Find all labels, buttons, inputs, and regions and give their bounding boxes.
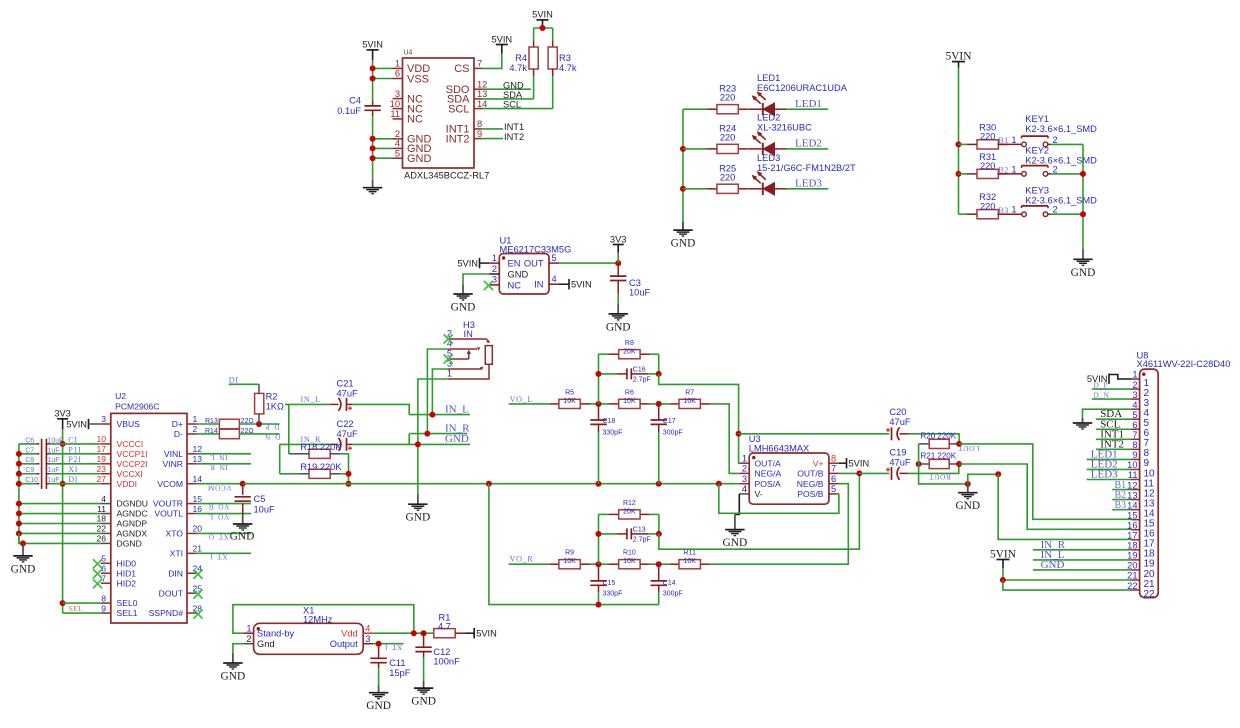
svg-text:GND: GND bbox=[366, 700, 391, 712]
junction dot node1 bbox=[596, 401, 602, 407]
svg-text:2: 2 bbox=[1053, 135, 1058, 145]
svg-text:10K: 10K bbox=[563, 398, 576, 405]
capacitor C12 100nF bbox=[415, 633, 460, 666]
svg-text:2.7pF: 2.7pF bbox=[633, 537, 651, 544]
wire to R30 bbox=[959, 143, 968, 145]
svg-text:22Ω: 22Ω bbox=[241, 428, 254, 435]
wire GND pin4 bbox=[373, 147, 393, 149]
junction dot LED row2 bbox=[680, 146, 686, 152]
wire KEY3 to ground rail bbox=[1051, 213, 1084, 215]
svg-text:27: 27 bbox=[96, 474, 106, 484]
wire VO_L row bbox=[509, 403, 549, 405]
ground symbol C12 bbox=[411, 681, 436, 708]
svg-text:23: 23 bbox=[96, 464, 106, 474]
svg-text:22: 22 bbox=[1144, 589, 1156, 600]
svg-text:9: 9 bbox=[1132, 450, 1137, 460]
wire C20 to R20 bbox=[909, 434, 960, 444]
svg-text:GND: GND bbox=[508, 269, 529, 279]
svg-text:10uF: 10uF bbox=[629, 288, 651, 298]
svg-text:19: 19 bbox=[96, 454, 106, 464]
wire XTO stub bbox=[197, 532, 251, 534]
svg-text:B1: B1 bbox=[998, 136, 1009, 145]
svg-text:POS/A: POS/A bbox=[755, 479, 782, 489]
net stub IN_R at H3 bbox=[409, 433, 467, 435]
svg-text:U2: U2 bbox=[115, 391, 126, 401]
svg-text:R6: R6 bbox=[625, 389, 634, 396]
svg-text:10K: 10K bbox=[563, 558, 576, 565]
wire U3 V- to ground bbox=[735, 494, 739, 515]
wire INT1 to pin7 bbox=[1096, 438, 1132, 440]
capacitor C15 330pF bbox=[590, 564, 622, 597]
wire R11 to U3 NEG/B bbox=[710, 484, 849, 565]
svg-text:R3: R3 bbox=[559, 53, 571, 63]
svg-text:2: 2 bbox=[1132, 380, 1137, 390]
svg-text:R5: R5 bbox=[565, 389, 574, 396]
wire VINL stub bbox=[197, 453, 251, 455]
wire key ground vertical bbox=[1082, 144, 1084, 249]
svg-text:GND: GND bbox=[503, 80, 524, 90]
switch KEY3 K2-3.6x6.1_SMD bbox=[997, 205, 1057, 217]
svg-text:D_N: D_N bbox=[264, 433, 280, 442]
resistor R32 220 bbox=[967, 192, 1008, 219]
capacitor C14 300pF bbox=[651, 564, 683, 597]
wire C18 to rail bbox=[598, 432, 600, 484]
junction dot LED row3 bbox=[680, 186, 686, 192]
ground symbol U8 pin4 bbox=[1073, 418, 1092, 429]
svg-text:SEL1: SEL1 bbox=[117, 608, 138, 618]
svg-text:D+: D+ bbox=[172, 419, 183, 429]
svg-text:SCL: SCL bbox=[503, 100, 521, 110]
wire D+ row bbox=[197, 423, 220, 425]
svg-text:0.1uF: 0.1uF bbox=[337, 106, 361, 116]
svg-text:INT2: INT2 bbox=[446, 133, 470, 145]
svg-text:C22: C22 bbox=[337, 419, 354, 429]
junction dot key gnd row3 bbox=[1080, 211, 1086, 217]
svg-text:5: 5 bbox=[552, 253, 557, 263]
wire 5VIN to pin21 bbox=[1003, 579, 1132, 581]
junction dot R2 D+ bbox=[256, 421, 262, 427]
wire pin4 to gnd bbox=[1083, 409, 1132, 421]
svg-text:1uF: 1uF bbox=[48, 477, 60, 484]
svg-text:XI: XI bbox=[68, 465, 78, 474]
ground symbol U1 bbox=[451, 284, 476, 313]
svg-text:2: 2 bbox=[742, 464, 747, 474]
svg-text:300pF: 300pF bbox=[663, 591, 683, 598]
wire to R23 bbox=[683, 108, 708, 110]
svg-text:GND: GND bbox=[411, 696, 436, 708]
svg-text:KEY2: KEY2 bbox=[1025, 146, 1049, 156]
svg-text:KEY1: KEY1 bbox=[1025, 114, 1049, 124]
wire VINR stub bbox=[197, 463, 251, 465]
svg-text:5VIN: 5VIN bbox=[532, 10, 553, 20]
svg-text:4: 4 bbox=[552, 274, 557, 284]
wire IN_R row bbox=[280, 443, 331, 445]
ground symbol R20R21 bbox=[955, 484, 980, 512]
wire U1 GND pin2 bbox=[463, 274, 489, 284]
wire INT2 to pin8 bbox=[1096, 448, 1132, 450]
wire to R32 bbox=[959, 213, 968, 215]
svg-text:R13: R13 bbox=[205, 418, 218, 425]
ground symbol C5 bbox=[230, 514, 255, 543]
wire KEY2 to ground rail bbox=[1051, 173, 1084, 175]
svg-text:INT2: INT2 bbox=[504, 132, 524, 142]
svg-text:8: 8 bbox=[831, 453, 836, 463]
wire DGND row bbox=[19, 533, 101, 543]
wire X1 top loop bbox=[233, 605, 414, 634]
junction dot pin17 net bbox=[995, 471, 1001, 477]
wire LED3 net bbox=[786, 188, 828, 190]
svg-text:22: 22 bbox=[96, 524, 106, 534]
wire R7 to U3 NEG/A bbox=[710, 404, 740, 474]
capacitor C8 1uF bbox=[19, 457, 101, 469]
svg-text:LED3: LED3 bbox=[795, 178, 822, 190]
svg-text:C16: C16 bbox=[633, 366, 646, 373]
ground symbol U2 left bbox=[11, 543, 36, 575]
svg-text:LMH6643MAX: LMH6643MAX bbox=[749, 443, 809, 453]
wire to R25 bbox=[683, 188, 708, 190]
svg-text:4: 4 bbox=[1132, 400, 1137, 410]
junction dot gnd row bbox=[16, 511, 22, 517]
junction dot key gnd row2 bbox=[1080, 171, 1086, 177]
svg-text:DI: DI bbox=[229, 375, 239, 384]
capacitor C3 10uF bbox=[610, 263, 651, 297]
junction dot C7 bbox=[16, 451, 22, 457]
IC U4 ADXL345BCCZ-RL7 accelerometer bbox=[390, 50, 490, 181]
junction dot node4 bbox=[656, 561, 662, 567]
net stub IN_L at H3 bbox=[409, 414, 470, 416]
svg-text:1: 1 bbox=[1011, 164, 1016, 174]
wire 5VIN to pin22 bbox=[1003, 580, 1132, 590]
wire VO_R row bbox=[509, 563, 549, 565]
wire U2 ground row bbox=[19, 503, 101, 505]
codec U2 PCM2906C bbox=[96, 391, 202, 623]
svg-text:10uF: 10uF bbox=[48, 437, 64, 444]
svg-text:19: 19 bbox=[1127, 551, 1137, 561]
wire 5VIN to R4 R3 tops bbox=[534, 28, 553, 41]
svg-text:1: 1 bbox=[492, 253, 497, 263]
svg-text:47uF: 47uF bbox=[337, 429, 359, 439]
svg-text:XT_I: XT_I bbox=[210, 552, 228, 561]
svg-text:SSPND#: SSPND# bbox=[149, 608, 184, 618]
resistor R1 4.7 bbox=[434, 613, 465, 638]
wire C12 to gnd bbox=[423, 657, 425, 681]
wire DI to R2 bbox=[229, 383, 259, 385]
connector U8 X4611WV-22I-C28D40 bbox=[1127, 350, 1230, 600]
LED D3 symbol bbox=[748, 171, 786, 195]
svg-text:ADXL345BCCZ-RL7: ADXL345BCCZ-RL7 bbox=[404, 171, 489, 181]
resistor R10 10K bbox=[609, 550, 650, 569]
capacitor C22 47uF polarized bbox=[330, 419, 358, 451]
svg-text:1: 1 bbox=[193, 414, 198, 424]
wire SEL1 row bbox=[63, 612, 101, 614]
svg-text:C10: C10 bbox=[25, 477, 38, 484]
svg-text:2.7pF: 2.7pF bbox=[633, 377, 651, 384]
svg-text:X4611WV-22I-C28D40: X4611WV-22I-C28D40 bbox=[1137, 359, 1231, 369]
svg-text:47uF: 47uF bbox=[337, 388, 359, 398]
ground symbol H3 sleeve bbox=[406, 495, 431, 524]
svg-text:1: 1 bbox=[1011, 205, 1016, 215]
wire LED1 net bbox=[786, 108, 828, 110]
svg-text:IN_L: IN_L bbox=[210, 453, 228, 462]
no-connect X at HID2 bbox=[93, 579, 102, 588]
junction dot node2 bbox=[656, 401, 662, 407]
svg-text:220: 220 bbox=[980, 161, 996, 171]
junction dot SEL0 bbox=[60, 600, 66, 606]
svg-text:7: 7 bbox=[1132, 430, 1137, 440]
no-connect X at H3 pin5 bbox=[444, 354, 453, 363]
svg-text:IN_L: IN_L bbox=[301, 395, 321, 404]
svg-text:C3: C3 bbox=[629, 278, 641, 288]
resistor R5 10K bbox=[549, 389, 590, 408]
wire CI-SEL vertical rail bbox=[62, 444, 64, 613]
svg-text:OUT: OUT bbox=[524, 259, 544, 269]
power bar flag 5VIN at U3 V+ bbox=[839, 458, 869, 469]
svg-text:GND: GND bbox=[221, 671, 246, 683]
svg-text:220: 220 bbox=[980, 201, 996, 211]
junction dot C12 tap bbox=[421, 630, 427, 636]
wire R12 right vertical bbox=[658, 514, 660, 534]
svg-text:ROUT: ROUT bbox=[929, 473, 951, 482]
svg-text:SCL: SCL bbox=[448, 103, 469, 115]
svg-text:12: 12 bbox=[477, 79, 487, 89]
wire C17 to rail bbox=[658, 432, 660, 484]
svg-text:U4: U4 bbox=[404, 50, 413, 57]
svg-text:LED3: LED3 bbox=[1091, 469, 1118, 481]
svg-text:CI: CI bbox=[68, 435, 77, 444]
svg-text:GND: GND bbox=[606, 321, 631, 333]
wire R19 to rail bbox=[340, 473, 348, 475]
wire H3 pin3 to IN_L node bbox=[432, 369, 448, 415]
svg-text:1uF: 1uF bbox=[48, 457, 60, 464]
resistor R12 20K bbox=[599, 500, 659, 519]
svg-text:2: 2 bbox=[492, 264, 497, 274]
junction dot C20 tap bbox=[736, 431, 742, 437]
no-connect X at H3 pin2 bbox=[444, 334, 453, 343]
wire VSS pin6 bbox=[373, 78, 393, 80]
junction dot key row2 bbox=[956, 171, 962, 177]
svg-text:K2-3.6×6.1_SMD: K2-3.6×6.1_SMD bbox=[1025, 124, 1097, 134]
wire R6 to node2 bbox=[650, 403, 669, 405]
wire SDO net GND label bbox=[482, 88, 531, 90]
svg-text:AGNDP: AGNDP bbox=[117, 519, 148, 529]
switch KEY1 K2-3.6x6.1_SMD bbox=[997, 135, 1057, 147]
wire C19 to R21 bbox=[909, 464, 959, 473]
svg-text:1uF: 1uF bbox=[48, 447, 60, 454]
resistor R14 22ohm bbox=[205, 428, 279, 439]
svg-text:15pF: 15pF bbox=[389, 668, 411, 678]
svg-text:11: 11 bbox=[390, 109, 400, 119]
power flag 5VIN at C4 bbox=[362, 40, 383, 60]
svg-text:B3: B3 bbox=[998, 206, 1009, 215]
wire R3 to SCL bbox=[552, 76, 554, 109]
svg-text:LOUT: LOUT bbox=[958, 444, 980, 453]
svg-text:8: 8 bbox=[1132, 440, 1137, 450]
svg-text:XT_O: XT_O bbox=[208, 533, 229, 542]
svg-text:GND: GND bbox=[1041, 559, 1065, 571]
junction dot R19 right bbox=[346, 471, 352, 477]
junction dot rail pin5 branch bbox=[716, 481, 722, 487]
svg-text:10uF: 10uF bbox=[254, 504, 276, 514]
svg-text:2: 2 bbox=[1053, 164, 1058, 174]
svg-text:C15: C15 bbox=[603, 580, 616, 587]
label LED2 XL-3216UBC bbox=[757, 113, 812, 133]
svg-text:10K: 10K bbox=[683, 558, 696, 565]
resistor R30 220 bbox=[967, 122, 1008, 149]
svg-text:17: 17 bbox=[96, 444, 106, 454]
svg-text:VBUS: VBUS bbox=[117, 419, 141, 429]
wire XTI stub bbox=[197, 552, 251, 554]
wire B3 to pin14 bbox=[1112, 509, 1131, 511]
svg-text:DGND: DGND bbox=[117, 539, 142, 549]
junction dot rail R18 bbox=[346, 481, 352, 487]
capacitor C21 47uF polarized bbox=[330, 378, 358, 411]
svg-text:2: 2 bbox=[1053, 205, 1058, 215]
svg-text:1uF: 1uF bbox=[48, 467, 60, 474]
svg-text:10K: 10K bbox=[623, 558, 636, 565]
resistor R31 220 bbox=[967, 152, 1008, 179]
svg-text:5VIN: 5VIN bbox=[491, 34, 512, 44]
capacitor C7 1uF bbox=[19, 447, 101, 459]
power bar flag 5VIN at U8 pin1 bbox=[1087, 374, 1132, 385]
svg-text:VO_R: VO_R bbox=[510, 554, 534, 563]
wire C4 to ground bbox=[372, 116, 374, 180]
svg-text:4: 4 bbox=[742, 484, 747, 494]
svg-text:VINR: VINR bbox=[162, 459, 183, 469]
wire C14 to bottom rail bbox=[658, 592, 660, 605]
wire INT2 stub bbox=[482, 138, 503, 140]
power bar flag 5VIN at R1 bbox=[465, 628, 497, 639]
wire VCOM row bbox=[197, 483, 244, 485]
svg-text:V-: V- bbox=[755, 489, 763, 499]
svg-text:5VIN: 5VIN bbox=[476, 629, 497, 639]
regulator U1 ME6217C33M5G bbox=[489, 235, 571, 294]
no-connect X at DOUT bbox=[193, 590, 202, 599]
wire VOUTL stub bbox=[197, 513, 251, 515]
wire U3 POS/B to rail bbox=[719, 484, 839, 514]
svg-text:VCCP1I: VCCP1I bbox=[117, 449, 148, 459]
svg-text:VOUTR: VOUTR bbox=[153, 499, 183, 509]
svg-text:C5: C5 bbox=[254, 494, 266, 504]
wire C11 to gnd bbox=[378, 668, 380, 685]
svg-text:20K: 20K bbox=[623, 509, 636, 516]
resistor R4 4.7k bbox=[509, 41, 538, 76]
wire OUT/B node bbox=[839, 472, 860, 474]
svg-text:1: 1 bbox=[742, 453, 747, 463]
resistor R13 22ohm bbox=[205, 418, 259, 429]
capacitor C6 10uF bbox=[19, 437, 101, 449]
junction dot VCOM C5 bbox=[240, 481, 246, 487]
svg-text:C8: C8 bbox=[25, 457, 34, 464]
svg-text:ME6217C33M5G: ME6217C33M5G bbox=[500, 244, 572, 254]
svg-text:AGNDX: AGNDX bbox=[117, 529, 148, 539]
svg-text:VSS: VSS bbox=[407, 73, 429, 85]
svg-text:220: 220 bbox=[720, 93, 736, 103]
svg-text:R21 220K: R21 220K bbox=[921, 452, 957, 461]
svg-text:220: 220 bbox=[720, 172, 736, 182]
svg-text:3: 3 bbox=[395, 89, 400, 99]
svg-text:VCOM: VCOM bbox=[207, 484, 231, 493]
svg-text:11: 11 bbox=[97, 504, 106, 514]
svg-text:C20: C20 bbox=[889, 407, 906, 417]
svg-text:3: 3 bbox=[365, 634, 370, 644]
junction dot bottom rail C15 bbox=[596, 602, 602, 608]
oscillator X1 12MHz bbox=[244, 606, 374, 655]
junction dot gnd node bbox=[965, 481, 971, 487]
svg-text:GND: GND bbox=[671, 238, 696, 250]
wire LOUT to U8 pin15 bbox=[959, 444, 1131, 519]
capacitor C19 47uF polarized bbox=[859, 447, 911, 480]
no-connect X at SSPND# bbox=[193, 609, 202, 618]
wire bottom rail bbox=[489, 484, 659, 605]
svg-text:5: 5 bbox=[1132, 410, 1137, 420]
wire cap bank left vertical bbox=[18, 444, 20, 544]
svg-text:R2: R2 bbox=[266, 392, 278, 402]
ground symbol C3 bbox=[606, 305, 631, 334]
LED D2 symbol bbox=[748, 131, 786, 155]
svg-text:1: 1 bbox=[395, 59, 400, 69]
svg-text:5VIN: 5VIN bbox=[571, 280, 592, 290]
svg-text:3: 3 bbox=[1132, 390, 1137, 400]
junction dot CI bbox=[60, 441, 66, 447]
svg-text:C14: C14 bbox=[663, 580, 676, 587]
ground symbol keys bbox=[1071, 249, 1096, 279]
svg-text:R18 220K: R18 220K bbox=[300, 442, 342, 452]
svg-text:220: 220 bbox=[720, 132, 736, 142]
svg-text:13: 13 bbox=[477, 89, 487, 99]
svg-text:5: 5 bbox=[395, 148, 400, 158]
wire R10 to node4 bbox=[650, 563, 669, 565]
svg-text:K2-3.6×6.1_SMD: K2-3.6×6.1_SMD bbox=[1025, 156, 1097, 166]
svg-text:GND: GND bbox=[407, 153, 432, 165]
svg-text:D_P: D_P bbox=[265, 423, 280, 432]
svg-text:Output: Output bbox=[330, 639, 358, 649]
svg-text:12: 12 bbox=[193, 444, 203, 454]
svg-text:4.7: 4.7 bbox=[438, 621, 451, 631]
svg-text:GND: GND bbox=[445, 433, 469, 445]
wire D_P to pin2 bbox=[1092, 388, 1132, 390]
svg-text:5VIN: 5VIN bbox=[66, 419, 87, 429]
svg-text:GND: GND bbox=[451, 302, 476, 314]
svg-text:R12: R12 bbox=[623, 500, 636, 507]
svg-text:GND: GND bbox=[406, 512, 431, 524]
junction dot C16 left bbox=[596, 371, 602, 377]
net stub GND at H3 bbox=[409, 443, 470, 445]
svg-text:R14: R14 bbox=[205, 428, 218, 435]
LED D1 symbol bbox=[748, 91, 786, 115]
svg-text:20K: 20K bbox=[623, 348, 636, 355]
capacitor C11 15pF bbox=[370, 644, 410, 678]
svg-text:SEL: SEL bbox=[69, 604, 84, 613]
svg-text:R10: R10 bbox=[623, 550, 636, 557]
wire C22 out jog bbox=[352, 443, 409, 445]
ground symbol X1 bbox=[221, 653, 246, 683]
wire SDA net bbox=[482, 98, 534, 100]
junction dot gnd row bbox=[16, 501, 22, 507]
wire R18 to rail bbox=[340, 454, 348, 484]
svg-text:22Ω: 22Ω bbox=[241, 418, 254, 425]
svg-text:47uF: 47uF bbox=[889, 417, 911, 427]
svg-text:8: 8 bbox=[477, 119, 482, 129]
resistor R8 20K bbox=[599, 340, 659, 359]
svg-text:9: 9 bbox=[101, 603, 106, 613]
wire pin17 net vertical bbox=[998, 474, 1131, 539]
wire U2 ground row bbox=[19, 523, 101, 525]
junction dot DI bbox=[60, 481, 66, 487]
junction dot C16 right bbox=[656, 371, 662, 377]
wire D- row bbox=[197, 433, 220, 435]
svg-text:GND: GND bbox=[955, 500, 980, 512]
svg-text:12MHz: 12MHz bbox=[303, 615, 333, 625]
